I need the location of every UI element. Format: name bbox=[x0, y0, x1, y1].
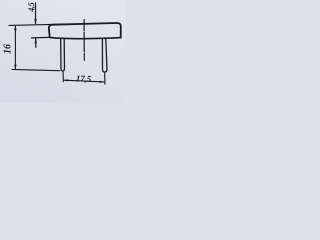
lead 2 (right pin) bbox=[102, 38, 107, 72]
svg-text:16: 16 bbox=[2, 44, 13, 54]
dimension line 17,5 (horizontal) bbox=[64, 80, 104, 82]
extension line: right lead centre (for 17,5) bbox=[104, 73, 106, 84]
paper background bbox=[0, 0, 126, 103]
arrowhead up (4,5 bottom) bbox=[35, 38, 37, 44]
lead 1 (left pin) bbox=[61, 39, 65, 71]
arrowhead down (4,5 top) bbox=[34, 19, 36, 25]
svg-text:4,5: 4,5 bbox=[27, 2, 36, 13]
arrowhead right (17,5 right) bbox=[100, 81, 105, 83]
arrowhead left (17,5 left) bbox=[64, 79, 69, 81]
dimension line 4,5 lower segment bbox=[35, 38, 37, 47]
center line (vertical axis) bbox=[83, 20, 85, 61]
arrowhead down (16 bottom) bbox=[14, 65, 17, 70]
extension line: body bottom level (for 4,5) bbox=[32, 36, 50, 39]
body bottom edge bbox=[50, 37, 121, 38]
arrowhead up (16 top) bbox=[14, 26, 17, 31]
svg-text:17,5: 17,5 bbox=[76, 73, 92, 84]
component body outline bbox=[49, 23, 121, 38]
extension line: body top level bbox=[9, 24, 62, 25]
extension line: left lead centre (for 17,5) bbox=[62, 72, 64, 82]
extension line: lead tip level bbox=[12, 69, 60, 70]
dimension line 4,5 upper segment bbox=[35, 3, 37, 24]
dimension line 16 (vertical) bbox=[14, 26, 16, 68]
